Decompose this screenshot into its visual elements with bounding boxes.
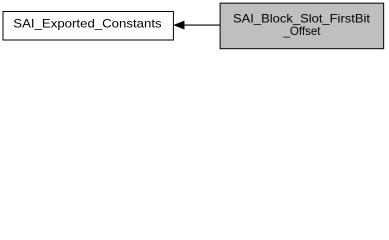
svg-text:SAI_Exported_Constants: SAI_Exported_Constants	[13, 17, 161, 31]
svg-text:_Offset: _Offset	[283, 24, 322, 38]
